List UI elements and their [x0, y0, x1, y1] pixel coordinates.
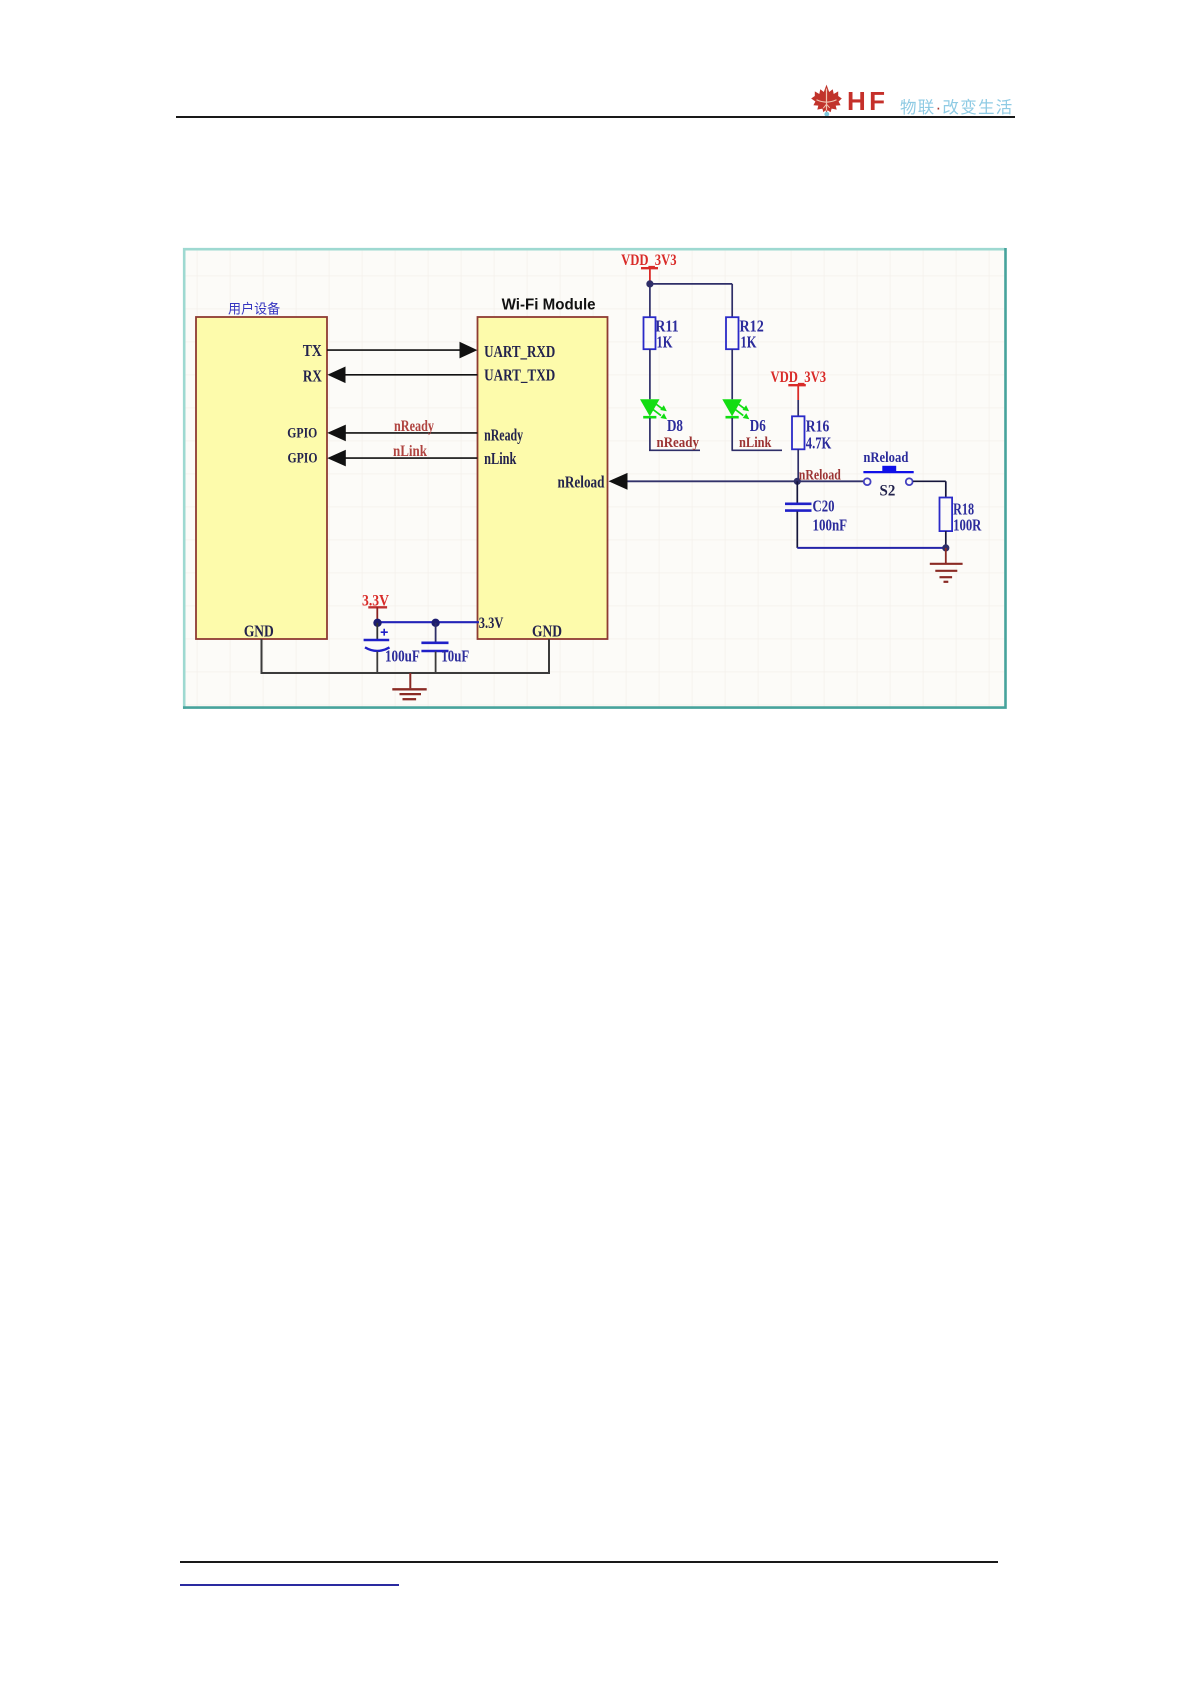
svg-text:nLink: nLink — [484, 450, 517, 468]
svg-text:VDD_3V3: VDD_3V3 — [621, 252, 676, 270]
svg-text:1K: 1K — [657, 334, 673, 352]
svg-text:nLink: nLink — [393, 443, 427, 460]
svg-text:GND: GND — [532, 622, 562, 641]
svg-text:nReload: nReload — [799, 466, 841, 483]
svg-text:GND: GND — [244, 622, 274, 641]
svg-text:100uF: 100uF — [385, 647, 420, 666]
svg-text:用户设备: 用户设备 — [228, 300, 280, 316]
svg-text:GPIO: GPIO — [287, 424, 317, 441]
svg-text:1K: 1K — [741, 334, 757, 352]
svg-text:UART_TXD: UART_TXD — [484, 367, 555, 385]
svg-text:100R: 100R — [953, 517, 981, 535]
svg-text:nReload: nReload — [558, 474, 606, 492]
svg-text:Wi-Fi Module: Wi-Fi Module — [502, 296, 596, 313]
svg-text:RX: RX — [303, 367, 322, 386]
svg-text:nReady: nReady — [657, 435, 699, 451]
svg-text:100nF: 100nF — [813, 517, 848, 535]
svg-text:nReload: nReload — [863, 450, 908, 466]
svg-text:nLink: nLink — [739, 434, 772, 450]
svg-text:nReady: nReady — [394, 419, 434, 436]
svg-text:GPIO: GPIO — [287, 449, 317, 466]
svg-text:10uF: 10uF — [441, 648, 469, 666]
svg-text:4.7K: 4.7K — [806, 435, 832, 453]
svg-text:UART_RXD: UART_RXD — [484, 344, 555, 362]
svg-text:D8: D8 — [667, 417, 683, 436]
svg-text:3.3V: 3.3V — [362, 593, 389, 610]
svg-text:S2: S2 — [880, 482, 896, 500]
svg-text:R16: R16 — [806, 417, 830, 436]
svg-text:nReady: nReady — [484, 427, 524, 445]
svg-text:C20: C20 — [813, 498, 835, 516]
svg-text:TX: TX — [303, 342, 322, 361]
svg-text:VDD_3V3: VDD_3V3 — [771, 369, 827, 387]
svg-text:3.3V: 3.3V — [479, 615, 504, 633]
